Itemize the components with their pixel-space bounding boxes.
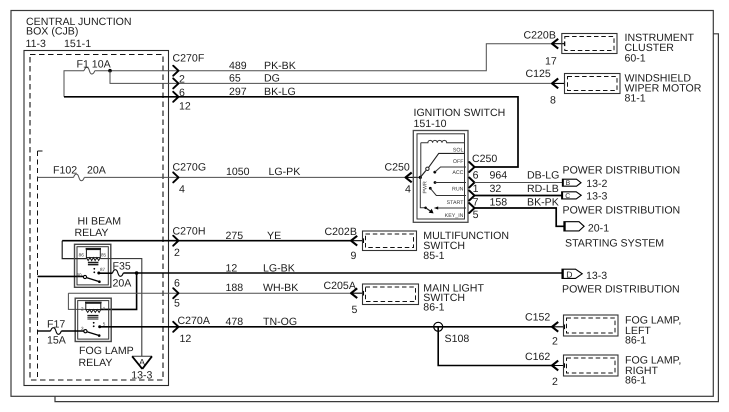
svg-text:297: 297 — [229, 86, 247, 98]
svg-text:1050: 1050 — [226, 166, 250, 178]
svg-text:F35: F35 — [113, 261, 131, 273]
flag C — [562, 190, 608, 202]
svg-text:2: 2 — [552, 336, 558, 348]
svg-text:87: 87 — [100, 267, 106, 272]
svg-text:11-3: 11-3 — [26, 38, 47, 50]
fuse F35 — [113, 270, 124, 277]
windshield wiper motor box — [565, 74, 621, 94]
svg-text:13-2: 13-2 — [586, 178, 607, 190]
svg-text:3: 3 — [81, 326, 84, 331]
svg-text:F17: F17 — [47, 319, 65, 331]
svg-text:DG: DG — [264, 73, 280, 85]
svg-text:A: A — [139, 357, 145, 367]
wire 489 PK-BK — [95, 44, 552, 71]
svg-text:START: START — [447, 200, 465, 206]
CJB bus partition — [38, 151, 46, 380]
svg-text:5: 5 — [103, 322, 106, 327]
svg-text:YE: YE — [267, 230, 281, 242]
svg-text:1: 1 — [103, 306, 106, 311]
switch internal: START contact — [429, 187, 432, 190]
switch internal: pivot arm to OFF — [420, 171, 426, 178]
svg-text:20A: 20A — [87, 164, 107, 176]
svg-text:POWER DISTRIBUTION: POWER DISTRIBUTION — [563, 205, 681, 217]
svg-text:C152: C152 — [525, 312, 550, 324]
svg-text:FOG LAMP: FOG LAMP — [79, 345, 134, 357]
svg-text:C220B: C220B — [524, 30, 556, 42]
wire 964 DB-LG — [475, 182, 563, 184]
svg-text:151-1: 151-1 — [64, 38, 91, 50]
svg-text:RELAY: RELAY — [79, 357, 113, 369]
svg-text:275: 275 — [226, 230, 244, 242]
wire 297 BK-LG — [64, 97, 518, 167]
junction — [108, 69, 112, 73]
svg-text:C270F: C270F — [173, 53, 205, 65]
wire 32 RD-LB — [475, 195, 563, 197]
svg-text:RELAY: RELAY — [75, 227, 109, 239]
wire 65 DG — [110, 71, 552, 84]
svg-text:20-1: 20-1 — [588, 223, 609, 235]
wire: F35 to fog relay coil — [101, 273, 137, 309]
svg-text:ACC: ACC — [452, 170, 463, 176]
svg-text:WH-BK: WH-BK — [263, 282, 298, 294]
hi beam relay coil — [86, 249, 101, 265]
wire: bus to fuse F1 — [64, 71, 84, 97]
wire: hi beam coil to ground — [100, 259, 142, 357]
svg-text:PK-BK: PK-BK — [264, 60, 296, 72]
svg-text:60-1: 60-1 — [625, 52, 646, 64]
wire: 188 drop to fog coil — [68, 293, 85, 309]
multifunction switch box — [363, 231, 417, 251]
fog lamp left box — [564, 315, 619, 336]
svg-text:F102: F102 — [53, 164, 77, 176]
CJB solid box — [24, 51, 169, 386]
svg-text:65: 65 — [229, 73, 241, 85]
main light switch box — [363, 284, 419, 305]
svg-text:86-1: 86-1 — [423, 302, 444, 314]
CJB dashed box — [30, 55, 163, 381]
wire: bus to fuse F17 — [38, 330, 51, 332]
svg-text:13-3: 13-3 — [131, 370, 152, 382]
wire 1050 LG-PK — [38, 176, 74, 178]
svg-text:6: 6 — [174, 278, 180, 290]
svg-text:17: 17 — [545, 56, 557, 68]
svg-text:2: 2 — [179, 74, 185, 86]
svg-text:81-1: 81-1 — [625, 93, 646, 105]
svg-text:6: 6 — [179, 87, 185, 99]
svg-text:5: 5 — [174, 298, 180, 310]
svg-text:85-1: 85-1 — [423, 250, 444, 262]
ignition switch box — [413, 131, 468, 223]
svg-text:478: 478 — [226, 316, 244, 328]
flag D — [562, 269, 607, 282]
svg-text:1: 1 — [473, 183, 479, 195]
svg-text:13-3: 13-3 — [586, 270, 607, 282]
flag 20-1 — [564, 222, 609, 235]
instrument cluster box — [562, 34, 617, 54]
svg-text:LG-PK: LG-PK — [269, 166, 301, 178]
fog relay arm — [87, 332, 99, 336]
svg-text:13-3: 13-3 — [586, 190, 607, 202]
fog relay contact 3 — [84, 330, 87, 333]
fog lamp relay coil — [85, 303, 102, 320]
fog relay contact 5 — [98, 325, 101, 328]
svg-text:2: 2 — [552, 376, 558, 388]
svg-text:2: 2 — [81, 307, 84, 312]
svg-text:RD-LB: RD-LB — [527, 183, 559, 195]
svg-text:158: 158 — [490, 196, 508, 208]
svg-text:12: 12 — [226, 263, 238, 275]
svg-text:4: 4 — [179, 183, 185, 195]
svg-text:POWER DISTRIBUTION: POWER DISTRIBUTION — [562, 283, 680, 295]
svg-text:151-10: 151-10 — [414, 118, 447, 130]
svg-text:964: 964 — [490, 170, 508, 182]
svg-text:489: 489 — [229, 60, 247, 72]
flag B — [562, 178, 607, 190]
svg-text:C250: C250 — [472, 153, 497, 165]
svg-text:86: 86 — [79, 252, 85, 257]
switch internal: RUN contact — [434, 181, 437, 184]
ground A — [132, 355, 152, 357]
svg-text:SOL: SOL — [453, 147, 464, 153]
svg-text:86-1: 86-1 — [625, 375, 646, 387]
svg-text:C250: C250 — [385, 162, 410, 174]
switch internal: KEY_IN — [420, 177, 425, 207]
switch internal: coil to SOL — [421, 140, 465, 142]
svg-text:STARTING SYSTEM: STARTING SYSTEM — [565, 238, 664, 250]
wire: relay 30 feed — [38, 275, 84, 277]
wire 478 TN-OG — [100, 326, 552, 328]
svg-text:B: B — [566, 180, 571, 187]
svg-text:S108: S108 — [445, 333, 470, 345]
svg-text:2: 2 — [174, 247, 180, 259]
svg-text:5: 5 — [352, 304, 358, 316]
svg-text:12: 12 — [180, 333, 192, 345]
svg-text:8: 8 — [550, 95, 556, 107]
svg-text:32: 32 — [490, 183, 502, 195]
svg-text:HI BEAM: HI BEAM — [78, 216, 122, 228]
switch internal: left vertical — [420, 143, 422, 178]
svg-text:BOX (CJB): BOX (CJB) — [26, 26, 78, 38]
hi beam relay contact 87 — [97, 272, 100, 275]
svg-text:C125: C125 — [526, 68, 551, 80]
svg-text:F1 10A: F1 10A — [77, 58, 112, 70]
svg-text:30: 30 — [76, 273, 82, 278]
splice S108 — [438, 327, 552, 366]
wire 188 WH-BK — [68, 292, 351, 294]
hi beam relay box — [75, 244, 111, 287]
svg-text:12: 12 — [179, 100, 191, 112]
svg-text:C162: C162 — [525, 351, 550, 363]
hi beam relay contact 30 — [83, 275, 86, 278]
svg-text:RUN: RUN — [452, 186, 464, 192]
svg-text:D: D — [566, 269, 572, 279]
svg-text:5: 5 — [473, 209, 479, 221]
svg-text:POWER DISTRIBUTION: POWER DISTRIBUTION — [563, 165, 681, 177]
wire 158 BK-PK — [475, 208, 565, 226]
svg-text:TN-OG: TN-OG — [263, 316, 297, 328]
switch internal: feed — [413, 176, 421, 178]
svg-text:C270G: C270G — [173, 162, 207, 174]
svg-text:C270H: C270H — [173, 226, 206, 238]
hi beam relay arm — [87, 278, 99, 282]
svg-text:PWR: PWR — [422, 181, 428, 194]
svg-text:C205A: C205A — [324, 280, 357, 292]
svg-text:BK-LG: BK-LG — [264, 86, 296, 98]
svg-text:KEY_IN: KEY_IN — [445, 213, 464, 219]
switch internal: ACC contact — [433, 171, 436, 174]
svg-text:86-1: 86-1 — [625, 334, 646, 346]
fuse F1 — [84, 67, 95, 74]
svg-text:C202B: C202B — [325, 226, 357, 238]
svg-text:6: 6 — [473, 170, 479, 182]
svg-text:DB-LG: DB-LG — [527, 170, 559, 182]
fuse F102 — [74, 174, 85, 181]
svg-text:BK-PK: BK-PK — [527, 196, 559, 208]
svg-text:188: 188 — [226, 282, 244, 294]
wire 275 YE — [62, 241, 86, 259]
svg-text:15A: 15A — [47, 335, 67, 347]
svg-text:LG-BK: LG-BK — [263, 263, 295, 275]
svg-text:9: 9 — [351, 250, 357, 262]
wire 12 LG-BK / F35 feed — [99, 272, 113, 274]
svg-text:20A: 20A — [113, 277, 133, 289]
svg-text:C: C — [565, 193, 570, 200]
fuse F17 — [51, 328, 62, 335]
svg-text:4: 4 — [405, 183, 411, 195]
svg-text:85: 85 — [101, 252, 107, 257]
fog lamp right box — [564, 355, 619, 376]
svg-text:OFF: OFF — [453, 159, 464, 165]
svg-text:C270A: C270A — [178, 315, 211, 327]
fog lamp relay box — [75, 298, 111, 341]
